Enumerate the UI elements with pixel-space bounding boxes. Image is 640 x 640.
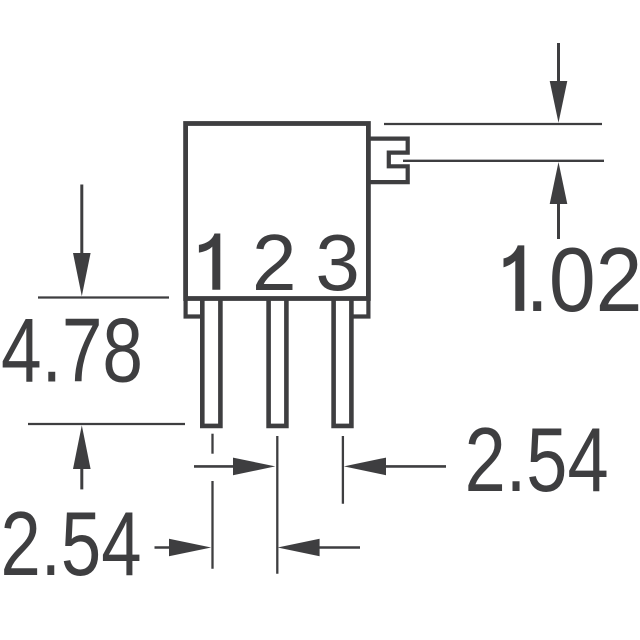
extension line below pin 1 upper segment xyxy=(211,434,213,454)
lower 2.54 dimension right arrow pointing left xyxy=(278,539,320,557)
svg-text:2.54: 2.54 xyxy=(1,494,142,595)
dimension arrow down (4.78 top) xyxy=(80,185,83,256)
leader line from tab notch xyxy=(403,160,604,162)
upper 2.54 dimension left arrow pointing right xyxy=(194,465,235,468)
svg-text:4.78: 4.78 xyxy=(1,301,143,402)
svg-text:.02: .02 xyxy=(526,230,640,331)
dimension arrow down (1.02 top) xyxy=(557,43,560,83)
pin 1 xyxy=(202,299,220,426)
svg-text:2: 2 xyxy=(252,218,297,307)
lower 2.54 dimension left arrow pointing right xyxy=(155,546,172,549)
leader line at body bottom left xyxy=(38,296,169,298)
leader line at body top right xyxy=(384,123,602,125)
pin 3 xyxy=(334,299,352,426)
dimension text 1.02 xyxy=(504,245,525,311)
pin 2 xyxy=(269,299,287,426)
dimension arrow up (4.78 bottom) xyxy=(73,425,91,469)
svg-text:2.54: 2.54 xyxy=(465,410,609,511)
extension line below pin 1 lower segment xyxy=(211,481,213,569)
extension line below pin 2 xyxy=(276,436,278,574)
svg-text:3: 3 xyxy=(315,218,360,307)
upper 2.54 dimension right arrow pointing left xyxy=(344,458,386,476)
adjustment tab on right side with slot notch xyxy=(370,139,408,183)
component body outline xyxy=(186,124,369,299)
leader line at pin bottom left xyxy=(28,423,185,425)
dimension arrow up (1.02 bottom) xyxy=(550,162,568,204)
extension line below pin 3 xyxy=(342,436,344,504)
pin number 1 xyxy=(199,234,220,290)
left bottom step xyxy=(186,299,203,317)
right bottom step xyxy=(351,299,368,317)
